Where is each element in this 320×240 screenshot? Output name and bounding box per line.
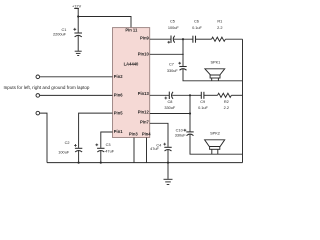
wire Pin4 to rail [146, 138, 148, 163]
svg-text:Pin2: Pin2 [114, 74, 123, 79]
wire right rail [242, 39, 244, 162]
svg-text:C6: C6 [194, 19, 199, 23]
svg-text:100uF: 100uF [168, 26, 180, 30]
capacitor C8 330uF [164, 92, 176, 110]
wire Pin13 to C8 [150, 94, 170, 96]
wire C9 to R2 [204, 94, 218, 96]
wire C10 to SPK2 wire [190, 134, 243, 154]
junction C5-C6-C7 node [182, 38, 184, 40]
svg-text:0.1uF: 0.1uF [198, 106, 208, 110]
svg-text:100uF: 100uF [58, 150, 70, 154]
svg-text:Pin 11: Pin 11 [125, 28, 138, 33]
capacitor C7 330uF [167, 62, 187, 73]
resistor R2 2.2 [218, 93, 232, 110]
svg-text:C10: C10 [176, 128, 183, 132]
svg-text:Pin9: Pin9 [140, 36, 149, 41]
ground G1 [75, 51, 82, 55]
wire Pin7 to C4 [150, 123, 168, 147]
junction C2 rail [78, 162, 80, 164]
svg-text:C2: C2 [65, 141, 70, 145]
junction C8-C9-C10 node [189, 94, 191, 96]
svg-text:C8: C8 [168, 100, 173, 104]
junction C3 rail [100, 162, 102, 164]
wire C7 to SPK1 wire [183, 69, 243, 81]
svg-text:Inputs for left, right and gro: Inputs for left, right and ground from l… [4, 85, 90, 90]
wire C4 to rail [167, 150, 169, 163]
speaker SPK1 [205, 61, 225, 81]
svg-text:Pin10: Pin10 [138, 51, 150, 56]
resistor R1 2.2 [212, 19, 226, 41]
svg-text:C3: C3 [106, 143, 111, 147]
capacitor C1 2200uF [53, 28, 82, 37]
svg-text:330uF: 330uF [175, 133, 187, 137]
wire Pin3 to rail [133, 138, 135, 163]
junction Pin10 node [182, 54, 184, 56]
svg-text:2.2: 2.2 [224, 106, 229, 110]
svg-text:0.1uF: 0.1uF [192, 26, 202, 30]
wire C1 to ground [77, 36, 79, 51]
node input terminal ground [36, 111, 40, 115]
wire Pin12 to C10 column [150, 113, 190, 115]
wire +12V vertical to C1 [77, 9, 79, 33]
svg-text:2200uF: 2200uF [53, 33, 67, 37]
svg-text:R2: R2 [224, 100, 229, 104]
svg-text:Pin4: Pin4 [142, 132, 151, 137]
wire C6 to R1 [196, 38, 212, 40]
wire R1 to right rail [225, 38, 242, 40]
svg-text:LA4440: LA4440 [124, 61, 139, 66]
op-amp U1 LA4440 IC body [113, 28, 150, 138]
wire rail to ground G2 [167, 163, 169, 179]
wire C5-C6 node down to C7 [182, 39, 184, 66]
wire input ground to bottom rail [40, 113, 47, 163]
capacitor C5 100uF [167, 19, 179, 43]
svg-text:C1: C1 [61, 28, 66, 32]
svg-text:Pin5: Pin5 [114, 110, 123, 115]
wire +12V rail to Pin 11 [78, 17, 131, 28]
wire input right to Pin6 [40, 94, 113, 96]
junction Pin12 node [189, 112, 191, 114]
wire Pin1 to C3 [101, 132, 113, 148]
node input terminal right [36, 94, 40, 98]
wire C8-C9 node down to C10 [189, 95, 191, 131]
svg-text:330uF: 330uF [167, 69, 179, 73]
wire C8 to C9 [172, 94, 201, 96]
capacitor C4 47uF [150, 143, 172, 151]
svg-text:SPK1: SPK1 [210, 61, 220, 65]
wire bottom ground rail [47, 162, 243, 164]
svg-text:R1: R1 [217, 19, 222, 23]
node +12V supply [72, 5, 82, 9]
wire C3 to rail [100, 151, 102, 163]
svg-text:Pin6: Pin6 [114, 93, 123, 98]
junction C4 rail ground node [167, 162, 169, 164]
wire Pin10 to C7 column [150, 53, 183, 55]
svg-text:2.2: 2.2 [217, 26, 222, 30]
svg-text:+12V: +12V [72, 5, 82, 9]
speaker SPK2 [205, 132, 225, 155]
svg-text:Pin13: Pin13 [138, 91, 150, 96]
svg-text:Pin12: Pin12 [138, 110, 150, 115]
svg-text:C7: C7 [169, 62, 174, 66]
wire C5 to C6 [174, 38, 193, 40]
svg-text:Pin3: Pin3 [129, 132, 138, 137]
ground G2 [164, 179, 173, 184]
capacitor C6 0.1uF [192, 19, 202, 42]
svg-text:C5: C5 [170, 19, 175, 23]
capacitor C2 100uF [58, 141, 82, 154]
capacitor C3 47uF [95, 143, 114, 154]
node input terminal left [36, 75, 40, 79]
capacitor C9 0.1uF [198, 92, 208, 110]
wire R2 to right rail [231, 94, 242, 96]
svg-text:Pin1: Pin1 [114, 129, 123, 134]
svg-text:C9: C9 [200, 100, 205, 104]
wire Pin9 to C5 [150, 38, 171, 40]
wire input left to Pin2 [40, 76, 113, 78]
wire C2 to rail [78, 151, 80, 163]
svg-text:Pin7: Pin7 [140, 120, 149, 125]
svg-text:SPK2: SPK2 [210, 132, 220, 136]
svg-text:47uF: 47uF [105, 149, 114, 153]
svg-text:47uF: 47uF [150, 147, 159, 151]
svg-text:330uF: 330uF [164, 106, 176, 110]
wire Pin5 to C2 [79, 113, 113, 148]
capacitor C10 330uF [175, 128, 194, 137]
junction +12V rail [77, 15, 79, 17]
